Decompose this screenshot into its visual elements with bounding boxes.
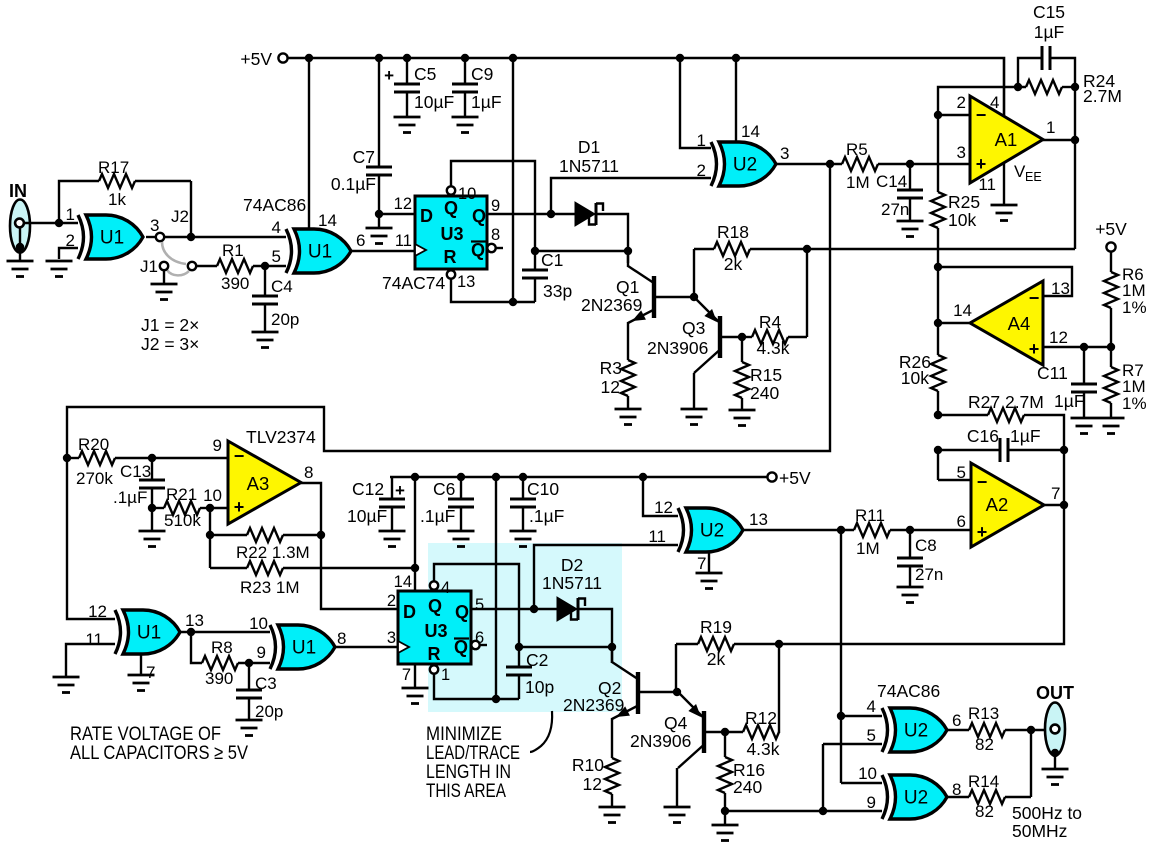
svg-text:82: 82 — [975, 802, 994, 821]
svg-text:R14: R14 — [968, 772, 999, 791]
svg-text:R1: R1 — [222, 241, 244, 260]
svg-text:U3: U3 — [440, 224, 463, 244]
svg-text:Q: Q — [472, 206, 486, 226]
svg-text:R27 2.7M: R27 2.7M — [968, 392, 1044, 412]
node C2 top — [515, 643, 523, 651]
wire A4 out — [938, 322, 970, 324]
wire A1 pin2 — [938, 114, 970, 116]
ground C8 — [897, 587, 924, 603]
wire A2 pin5 — [938, 479, 971, 481]
svg-text:510k: 510k — [164, 511, 201, 530]
svg-text:R5: R5 — [846, 140, 868, 159]
svg-text:2.7M: 2.7M — [1083, 86, 1122, 106]
svg-text:C13: C13 — [120, 462, 151, 481]
wire D1 cathode — [597, 214, 628, 263]
svg-text:+: + — [976, 154, 987, 174]
highlighted area (minimize lead length) — [428, 543, 622, 712]
svg-text:D2: D2 — [561, 555, 583, 575]
wire C13 bottom leg — [151, 488, 153, 508]
svg-text:Q: Q — [444, 198, 458, 218]
resistor R7 — [1104, 367, 1118, 403]
svg-text:C4: C4 — [271, 277, 293, 296]
svg-text:R21: R21 — [166, 485, 197, 504]
svg-text:9: 9 — [213, 436, 222, 455]
svg-text:C5: C5 — [414, 64, 436, 84]
ground Q2 emitter — [599, 807, 626, 823]
wire R12 right leg — [778, 644, 780, 733]
node rail-C12 — [411, 473, 419, 481]
svg-text:390: 390 — [205, 669, 233, 688]
svg-text:A4: A4 — [1008, 313, 1031, 334]
capacitor C13 — [139, 480, 165, 488]
wire A3 out — [300, 483, 398, 609]
wire C5 top leg — [406, 58, 408, 84]
svg-text:U2: U2 — [700, 521, 724, 542]
node Q4 base — [721, 728, 729, 736]
wire A2 out — [1043, 504, 1064, 506]
node rail-C5 — [403, 54, 411, 62]
svg-text:3: 3 — [957, 143, 966, 162]
wire C10 bottom leg — [522, 507, 524, 530]
svg-text:Q: Q — [471, 240, 485, 260]
svg-text:−: − — [1029, 288, 1040, 308]
wire pin5 row — [823, 743, 882, 745]
svg-text:1: 1 — [441, 666, 450, 684]
wire D2 cathode — [579, 609, 612, 663]
svg-text:2: 2 — [697, 161, 706, 180]
wire pin1 row — [434, 674, 519, 699]
ground J1 — [151, 284, 178, 300]
svg-text:1M: 1M — [856, 539, 880, 558]
svg-text:C7: C7 — [353, 147, 375, 167]
svg-text:+5V: +5V — [240, 49, 272, 69]
capacitor C8 — [897, 558, 923, 566]
node U2a out — [826, 160, 834, 168]
xor gate U1 (pins 10,9-8) — [278, 625, 335, 669]
wire pin5 leg — [822, 744, 824, 811]
svg-text:J1: J1 — [140, 257, 158, 276]
wire Q to D2 — [471, 608, 557, 610]
wire C4 top leg — [264, 266, 266, 296]
resistor R24 — [1026, 80, 1062, 94]
svg-text:R: R — [428, 644, 441, 664]
svg-text:R15: R15 — [750, 365, 782, 385]
capacitor C16 — [1000, 438, 1008, 462]
svg-text:13: 13 — [185, 611, 204, 630]
wire C1 bottom leg — [534, 278, 536, 302]
wire R19 left leg — [675, 644, 677, 692]
capacitor C4 — [252, 296, 278, 304]
wire C14 top leg — [909, 164, 911, 190]
resistor R20 — [79, 451, 115, 465]
wire U1c pin7 stub — [140, 654, 142, 674]
svg-text:+: + — [1029, 339, 1040, 359]
wire D gnd stub — [378, 214, 380, 227]
svg-text:11: 11 — [978, 175, 996, 194]
svg-text:R25: R25 — [948, 192, 980, 212]
wire U1a pin2 ground leg — [59, 248, 78, 259]
resistor R17 — [99, 174, 135, 188]
resistor R23 — [247, 561, 283, 575]
svg-text:2k: 2k — [724, 254, 743, 274]
svg-text:C2: C2 — [526, 650, 548, 670]
svg-text:−: − — [977, 472, 988, 492]
ground C7/D — [366, 228, 393, 244]
svg-text:7: 7 — [697, 554, 706, 573]
node R22 right — [317, 531, 325, 539]
svg-text:12: 12 — [601, 377, 620, 397]
wire Q1 collector — [627, 251, 629, 267]
svg-text:C12: C12 — [352, 479, 384, 499]
svg-text:6: 6 — [475, 629, 484, 647]
node pin12-C11 — [1080, 343, 1088, 351]
svg-text:Q4: Q4 — [664, 713, 688, 733]
wire U2c out — [743, 529, 854, 531]
node rail-496 — [492, 473, 500, 481]
node R21-R22 — [206, 504, 214, 512]
svg-text:Q: Q — [454, 637, 468, 657]
ground C4 — [252, 332, 279, 348]
svg-text:+5V: +5V — [779, 468, 811, 488]
ground C6 — [448, 531, 475, 547]
node rail-513 — [509, 54, 517, 62]
node J2 — [187, 233, 195, 241]
wire C13 gnd stub — [151, 508, 153, 530]
svg-text:U2: U2 — [733, 155, 757, 176]
wire A1 out down — [1074, 87, 1076, 249]
svg-text:5: 5 — [867, 726, 876, 745]
svg-text:2N2369: 2N2369 — [563, 695, 624, 715]
xor gate U1 (pins 12,11-13) — [123, 610, 180, 654]
svg-text:11: 11 — [648, 527, 666, 546]
svg-text:10: 10 — [458, 185, 476, 203]
wire pin10 loop — [451, 161, 535, 251]
op-amp A2 — [971, 463, 1044, 547]
resistor R22 — [247, 528, 283, 542]
ground U2c pin7 — [696, 573, 723, 589]
svg-text:1µF: 1µF — [1034, 22, 1065, 42]
diode D2 (1N5711) — [557, 597, 577, 621]
wire U2a pin14 leg — [735, 58, 737, 144]
resistor R1 — [217, 259, 253, 273]
node R20-C13 — [148, 454, 156, 462]
node C16 right — [1060, 446, 1068, 454]
node R5-C14 — [906, 160, 914, 168]
capacitor C1 — [522, 270, 548, 278]
ground U1c pin11 — [53, 677, 80, 693]
+5V supply terminal — [240, 49, 287, 69]
svg-text:11: 11 — [85, 630, 103, 649]
resistor R6 — [1104, 272, 1118, 308]
xor gate U2 (pins 4,5-6) — [890, 708, 947, 752]
svg-text:12: 12 — [654, 498, 673, 517]
wire R20 to A3 inv — [152, 457, 228, 459]
wire U1c pin11 — [66, 644, 115, 676]
svg-text:3: 3 — [780, 144, 789, 163]
node R1-C4 — [261, 262, 269, 270]
svg-text:C15: C15 — [1033, 2, 1065, 22]
wire C2 top leg — [518, 647, 520, 667]
wire U2c pin12 — [643, 477, 678, 516]
svg-text:10k: 10k — [901, 368, 929, 388]
capacitor C11 — [1071, 384, 1097, 392]
wire +5V rail — [288, 58, 1004, 118]
wire R4 right leg — [806, 249, 808, 337]
ground IN — [7, 261, 34, 277]
+5V terminal (bottom) — [767, 468, 811, 488]
svg-text:14: 14 — [318, 211, 337, 230]
xor gate U2 (pins 12,11-13) — [686, 508, 743, 552]
wire A1 out — [1043, 139, 1075, 141]
wire C2 bottom leg — [518, 675, 520, 699]
svg-text:2N3906: 2N3906 — [630, 731, 691, 751]
node C13-R21 — [148, 504, 156, 512]
wire Q out to D1 — [487, 213, 575, 215]
wire pin5 to U2c pin11 — [534, 545, 678, 609]
resistor R26 — [931, 355, 945, 391]
svg-text:J2 = 3×: J2 = 3× — [141, 334, 199, 354]
svg-text:.1µF: .1µF — [529, 506, 564, 526]
svg-text:4: 4 — [990, 93, 999, 112]
wire U3b pin14 — [414, 477, 416, 591]
svg-text:82: 82 — [975, 735, 994, 754]
wire U2a out — [776, 163, 842, 165]
wire A1 pin11 gnd — [1003, 162, 1005, 204]
wire C9 top leg — [464, 58, 466, 84]
svg-text:C14: C14 — [876, 172, 907, 191]
svg-text:THIS AREA: THIS AREA — [426, 780, 506, 802]
transistor Q4 (2N3906) — [702, 711, 706, 753]
svg-text:10µF: 10µF — [414, 92, 454, 112]
capacitor C10 — [510, 499, 536, 507]
node pin1-R17 — [55, 219, 63, 227]
capacitor C6 — [448, 499, 474, 507]
svg-text:13: 13 — [457, 273, 475, 291]
svg-text:R12: R12 — [745, 708, 777, 728]
capacitor C14 — [897, 190, 923, 198]
svg-text:Q1: Q1 — [616, 277, 639, 297]
node pin1-5V — [492, 695, 500, 703]
node A1 out — [1071, 136, 1079, 144]
wire C14 bottom leg — [909, 198, 911, 221]
svg-text:2k: 2k — [707, 649, 726, 669]
wire R8 right — [238, 662, 270, 664]
svg-text:8: 8 — [491, 226, 500, 244]
node rail-C6 — [457, 473, 465, 481]
svg-text:10: 10 — [249, 614, 268, 633]
svg-text:.1µF: .1µF — [420, 506, 455, 526]
ground C5 — [394, 117, 421, 133]
svg-text:9: 9 — [491, 197, 500, 215]
node A4 out — [934, 319, 942, 327]
wire C3 bottom leg — [248, 698, 250, 719]
node R22 left — [206, 531, 214, 539]
xor gate U1 (pins 4,5-6) — [294, 229, 351, 273]
wire J2 row — [165, 236, 286, 238]
svg-text:1µF: 1µF — [1054, 391, 1085, 411]
svg-text:6: 6 — [356, 231, 365, 250]
wire C6 top leg — [460, 477, 462, 499]
wire bottom +5V rail — [390, 476, 768, 479]
wire pin2 up leg — [938, 87, 1026, 115]
svg-text:D: D — [403, 602, 416, 622]
svg-text:C16: C16 — [967, 426, 999, 446]
wire Q2 collector — [611, 647, 613, 663]
node R24 right — [1071, 83, 1079, 91]
node D-input — [375, 210, 383, 218]
ground OUT — [1042, 769, 1069, 785]
wire C4 bottom leg — [264, 304, 266, 331]
wire C15 right leg — [1050, 58, 1075, 87]
svg-text:10: 10 — [858, 764, 877, 783]
svg-text:+: + — [234, 497, 245, 517]
node D2 anode — [530, 605, 538, 613]
wire A2 out down — [734, 450, 1064, 644]
svg-text:+5V: +5V — [1095, 219, 1127, 239]
node D1 anode — [547, 210, 555, 218]
svg-text:1: 1 — [697, 131, 706, 150]
wire R18 row right — [750, 248, 1075, 250]
wire Q1 base — [654, 296, 694, 298]
wire C16 left leg — [938, 449, 1000, 451]
wire C8 top leg — [909, 530, 911, 558]
wire R18 left leg — [693, 249, 695, 297]
wire C11 top leg — [1083, 347, 1085, 384]
pin bubble 8 — [487, 244, 495, 252]
svg-text:6: 6 — [957, 512, 966, 531]
xor gate U1 (pins 1,2-3) — [86, 215, 143, 259]
node C1 top — [531, 247, 539, 255]
wire U2e pin10 — [841, 782, 882, 784]
transistor Q1 (2N2369) — [652, 276, 656, 318]
ground C3 — [236, 720, 263, 736]
resistor R15 — [735, 362, 749, 398]
resistor R3 — [621, 360, 635, 396]
wire A2 pin5 up — [937, 450, 939, 480]
wire C11 bottom leg — [1083, 392, 1085, 417]
ground C10 — [510, 531, 537, 547]
wire U2a pin2 leg — [551, 178, 711, 214]
svg-text:Q: Q — [455, 602, 469, 622]
resistor R25 — [931, 192, 945, 228]
resistor R18 — [714, 242, 750, 256]
svg-text:10: 10 — [203, 486, 222, 505]
svg-text:5: 5 — [475, 596, 484, 614]
svg-text:12: 12 — [88, 602, 107, 621]
svg-text:−: − — [976, 105, 987, 125]
svg-text:A1: A1 — [995, 129, 1018, 150]
wire C7 top leg — [378, 58, 380, 167]
ground C14 — [897, 221, 924, 237]
svg-text:14: 14 — [394, 573, 412, 591]
node R12 branch — [775, 640, 783, 648]
svg-text:C8: C8 — [915, 536, 937, 555]
svg-text:3: 3 — [387, 629, 396, 647]
wire Q2 base — [638, 691, 677, 693]
svg-text:1N5711: 1N5711 — [559, 156, 619, 176]
svg-text:390: 390 — [221, 274, 249, 293]
wire C5 bottom leg — [406, 92, 408, 116]
wire pin3 to post — [146, 236, 155, 238]
ground R15 — [729, 410, 756, 426]
wire pin13 row — [451, 279, 535, 302]
svg-text:1M: 1M — [846, 173, 870, 192]
svg-text:U2: U2 — [904, 721, 928, 742]
ground Q3 collector — [681, 409, 708, 425]
resistor R5 — [842, 157, 878, 171]
svg-text:270k: 270k — [76, 469, 113, 488]
wire C3 top leg — [248, 663, 250, 690]
capacitor C7 — [366, 167, 392, 175]
svg-text:4: 4 — [867, 697, 876, 716]
node rail-C10 — [519, 473, 527, 481]
node rail-U1b14 — [305, 54, 313, 62]
svg-text:R22 1.3M: R22 1.3M — [236, 543, 310, 562]
wire D input — [379, 213, 415, 215]
op-amp A4 — [970, 281, 1043, 365]
svg-text:+: + — [977, 522, 988, 542]
svg-text:C9: C9 — [471, 64, 493, 84]
svg-text:27n: 27n — [881, 200, 909, 219]
node Q2 base - Q4 emitter — [673, 688, 681, 696]
svg-text:Q: Q — [428, 596, 442, 616]
resistor R4 — [752, 330, 788, 344]
wire U1b pin14 — [308, 58, 310, 229]
svg-text:C10: C10 — [527, 479, 559, 499]
svg-text:2: 2 — [957, 93, 966, 112]
wire R21-R22 vertical — [209, 508, 211, 568]
svg-text:12: 12 — [1049, 328, 1068, 347]
wire pin6 stub — [480, 644, 487, 646]
node pin5 branch — [819, 807, 827, 815]
svg-text:TLV2374: TLV2374 — [246, 427, 316, 447]
node rail-C7 — [375, 54, 383, 62]
ground C13 — [139, 531, 166, 547]
svg-text:6: 6 — [952, 711, 961, 730]
ground R7 — [1098, 418, 1125, 434]
svg-text:C1: C1 — [541, 250, 563, 270]
svg-text:U1: U1 — [292, 638, 316, 659]
svg-text:74AC74: 74AC74 — [382, 273, 446, 293]
node A2 out — [1060, 501, 1068, 509]
flip-flop U3 (74AC74 first half) — [415, 196, 487, 269]
capacitor C2 — [506, 667, 532, 675]
svg-text:1: 1 — [1046, 118, 1055, 137]
svg-text:1: 1 — [66, 205, 75, 224]
node R11-C8 — [906, 526, 914, 534]
svg-text:R23 1M: R23 1M — [240, 578, 300, 597]
svg-text:74AC86: 74AC86 — [877, 681, 940, 701]
wire Q4 collector — [676, 768, 678, 806]
pin bubble 10 — [447, 186, 455, 194]
node R13-R14 — [1027, 726, 1035, 734]
wire C6 bottom leg — [460, 507, 462, 530]
wire pin7 stub — [414, 664, 416, 687]
jumper wire gray arc top — [162, 242, 186, 264]
wire C1 top leg — [534, 251, 536, 270]
svg-text:A3: A3 — [247, 473, 270, 494]
svg-text:2: 2 — [387, 592, 396, 610]
node R26-R27 — [934, 411, 942, 419]
wire ground row — [725, 810, 882, 812]
capacitor C15 — [1042, 46, 1050, 70]
svg-text:7: 7 — [402, 666, 411, 684]
wire +5V to reset row — [512, 58, 514, 302]
svg-text:D: D — [420, 206, 433, 226]
svg-text:33p: 33p — [543, 281, 572, 301]
wire U1c out — [180, 631, 270, 633]
svg-text:U1: U1 — [308, 242, 332, 263]
